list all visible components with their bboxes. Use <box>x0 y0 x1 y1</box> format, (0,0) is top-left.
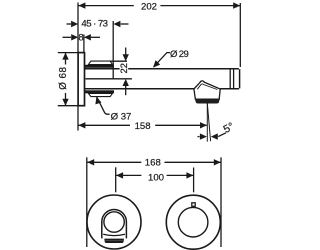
svg-text:158: 158 <box>135 121 151 132</box>
extension line left (plate left edge up) <box>77 3 79 53</box>
extension line 202 right <box>239 3 241 67</box>
label diameter 37 with leader <box>97 97 110 114</box>
spout tube <box>85 68 239 70</box>
handle notch <box>192 203 195 207</box>
spout tube circle <box>104 212 124 232</box>
dim 8 <box>63 36 72 38</box>
dim 22 <box>110 60 127 62</box>
dim 168 <box>86 157 88 247</box>
svg-text:202: 202 <box>141 2 157 13</box>
svg-text:Ø 68: Ø 68 <box>58 67 69 90</box>
svg-text:45 · 73: 45 · 73 <box>81 18 108 29</box>
dim 45 - 73 <box>67 23 72 25</box>
svg-text:Ø 29: Ø 29 <box>170 49 189 60</box>
right escutcheon circle (handle, front) <box>166 195 220 249</box>
dim diameter 68 (vertical, left of plate) <box>58 52 78 54</box>
aerator nozzle <box>194 81 220 99</box>
dim 202 <box>78 5 133 7</box>
wall plate (side view) <box>78 53 84 106</box>
extension 158 left (plate edge down) <box>77 106 79 131</box>
svg-text:168: 168 <box>145 157 161 168</box>
water stream lines <box>206 103 208 142</box>
svg-text:22: 22 <box>118 63 129 73</box>
extension line 45-73 right <box>112 21 114 79</box>
5 degree angle arrows + label <box>198 136 200 138</box>
dim 158 <box>78 124 130 126</box>
svg-text:8: 8 <box>78 33 83 44</box>
dim 100 <box>115 167 117 192</box>
spout shroud <box>102 210 127 239</box>
svg-text:Ø 37: Ø 37 <box>111 112 132 123</box>
left escutcheon circle (spout, front) <box>87 195 141 249</box>
bottom stub <box>85 91 114 93</box>
smile arc <box>103 234 125 235</box>
label diameter 29 with leader <box>154 53 170 67</box>
dark lip <box>104 239 124 243</box>
svg-text:100: 100 <box>148 173 164 184</box>
extension line 8-right (plate right edge up) <box>83 35 85 53</box>
top stub (escutcheon of concealed body) <box>85 65 114 67</box>
